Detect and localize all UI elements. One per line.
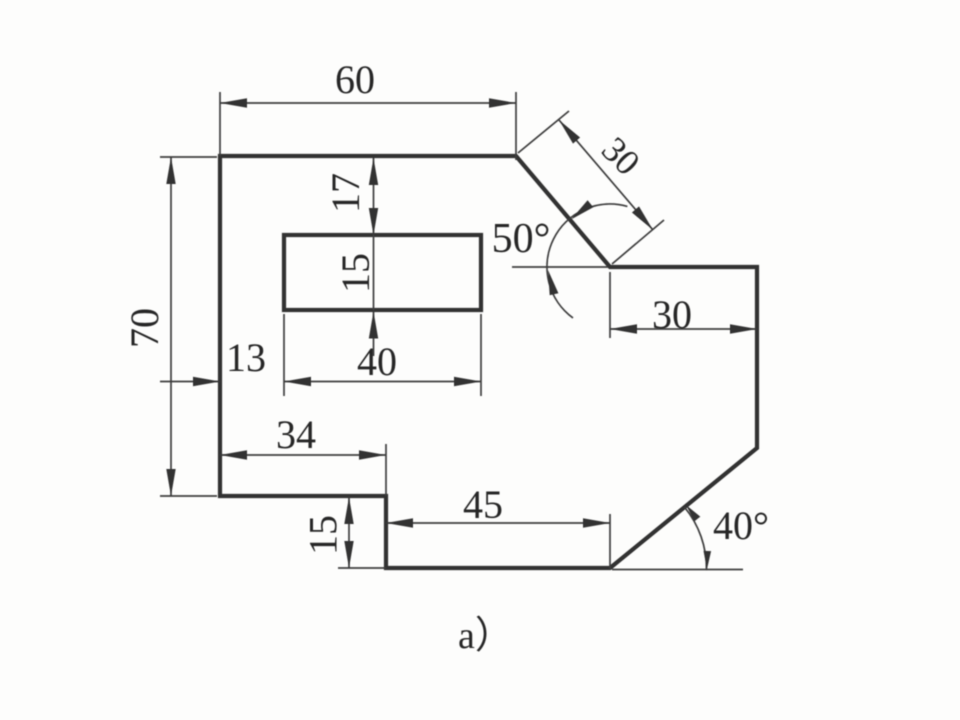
dimension 60 line xyxy=(220,102,516,104)
svg-text:40: 40 xyxy=(357,339,397,384)
dimension 45 arrow left xyxy=(386,518,413,527)
dimension 45 extension line right xyxy=(609,514,611,569)
dimension 15 slot arrow xyxy=(369,312,378,339)
angle 50 arc arrow lower xyxy=(548,270,558,295)
svg-text:34: 34 xyxy=(276,412,316,457)
dimension 30 diagonal extension line upper xyxy=(518,111,569,153)
dimension 17 arrow top xyxy=(369,158,378,185)
angle 40 text xyxy=(713,503,769,548)
dimension 70 extension line bottom xyxy=(160,495,217,497)
angle 50 horizontal reference line xyxy=(512,266,608,268)
dimension 13 text xyxy=(226,335,266,380)
svg-text:30: 30 xyxy=(652,292,692,337)
svg-text:15: 15 xyxy=(301,515,346,555)
svg-text:a）: a） xyxy=(458,615,513,657)
dimension 60 text xyxy=(335,57,375,102)
dimension 15 step line xyxy=(348,497,350,568)
svg-text:17: 17 xyxy=(323,173,368,213)
dimension 70 arrow top xyxy=(166,157,175,184)
dimension 70 extension line top xyxy=(160,156,217,158)
dimension 30 right arrow right xyxy=(730,324,757,333)
svg-text:13: 13 xyxy=(226,335,266,380)
dimension 70 text xyxy=(122,308,167,348)
dimension 15 step text xyxy=(301,515,346,555)
dimension 30 right text xyxy=(652,292,692,337)
dimension 17 text xyxy=(323,173,368,213)
dimension 45 line xyxy=(386,522,610,524)
dimension 15 slot outside arrow tail xyxy=(373,312,375,357)
dimension 60 extension line left xyxy=(219,92,221,156)
inner rectangle slot xyxy=(284,235,481,310)
dimension 70 line xyxy=(170,157,172,496)
dimension 40 extension line left xyxy=(283,314,285,396)
dimension 30 right arrow left xyxy=(610,324,637,333)
dimension 34 line xyxy=(220,454,386,456)
angle 40 arc arrow upper xyxy=(686,505,700,521)
dimension 40 arrow left xyxy=(284,377,311,386)
dimension 15 slot line xyxy=(373,235,375,310)
part outline xyxy=(220,156,757,568)
dimension 15 slot text xyxy=(333,253,378,293)
svg-text:60: 60 xyxy=(335,57,375,102)
dimension 30 diagonal text xyxy=(594,129,648,183)
dimension 15 step extension line bottom xyxy=(338,567,386,569)
angle 40 arc xyxy=(684,507,706,570)
dimension 30 diagonal arrow lower xyxy=(632,206,653,230)
dimension 34 arrow left xyxy=(220,450,247,459)
svg-text:15: 15 xyxy=(333,253,378,293)
dimension 13 leader line xyxy=(160,381,220,383)
dimension 15 step arrow bottom xyxy=(344,541,353,568)
angle 40 arc arrow lower xyxy=(704,551,712,569)
dimension 70 arrow bottom xyxy=(166,469,175,496)
dimension 45 arrow right xyxy=(583,518,610,527)
angle 50 arc arrow upper xyxy=(571,200,593,219)
dimension 15 step arrow top xyxy=(344,497,353,524)
svg-text:50°: 50° xyxy=(492,216,551,262)
dimension 30 right extension line xyxy=(609,272,611,338)
dimension 34 text xyxy=(276,412,316,457)
dimension 30 diagonal arrow upper xyxy=(559,120,580,144)
dimension 17 line xyxy=(373,158,375,235)
svg-text:70: 70 xyxy=(122,308,167,348)
dimension 60 arrow right xyxy=(489,98,516,107)
svg-text:40°: 40° xyxy=(713,503,769,548)
dimension 45 text xyxy=(463,482,503,527)
svg-text:45: 45 xyxy=(463,482,503,527)
dimension 17 arrow bottom xyxy=(369,208,378,235)
angle 50 text xyxy=(492,216,551,262)
dimension 13 arrow xyxy=(193,377,220,386)
caption a) xyxy=(458,615,513,657)
angle 40 horizontal reference line xyxy=(612,569,743,571)
dimension 60 extension line right xyxy=(515,92,517,160)
dimension 40 extension line right xyxy=(480,314,482,396)
dimension 30 diagonal extension line lower xyxy=(612,220,664,264)
dimension 34 arrow right xyxy=(359,450,386,459)
dimension 40 line xyxy=(284,381,481,383)
dimension 40 text xyxy=(357,339,397,384)
dimension 60 arrow left xyxy=(220,98,247,107)
dimension 30 diagonal line xyxy=(559,120,653,230)
dimension 34 extension line right xyxy=(385,444,387,496)
dimension 40 arrow right xyxy=(454,377,481,386)
angle 50 arc xyxy=(547,204,627,318)
dimension 30 right line xyxy=(610,328,757,330)
